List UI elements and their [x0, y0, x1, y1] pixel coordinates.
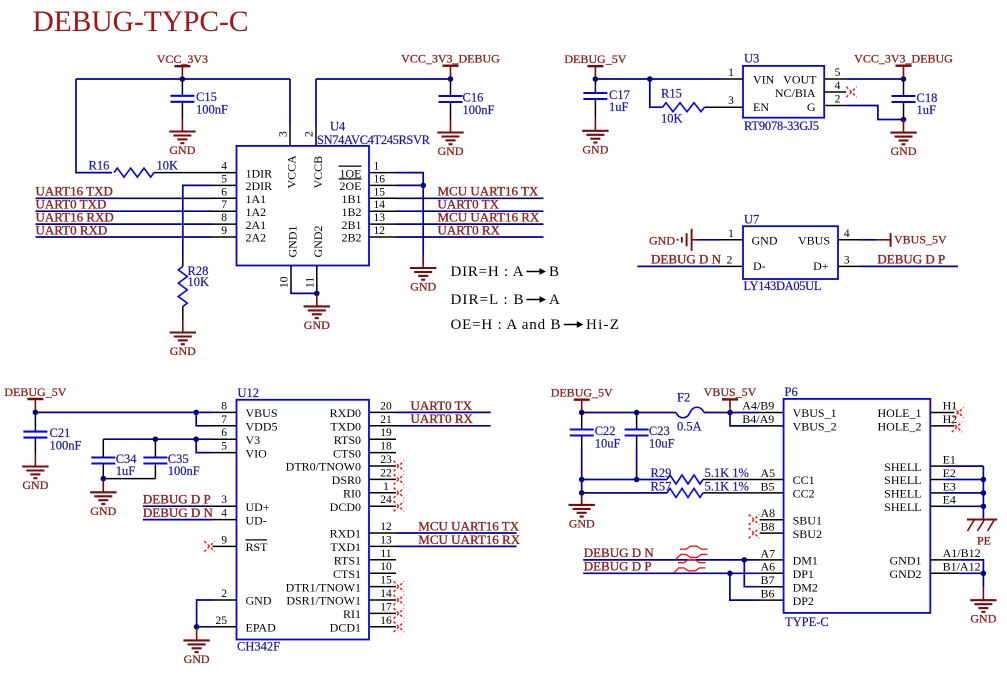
ground below C22 rail	[569, 492, 596, 531]
capacitor C16	[439, 79, 495, 120]
no-connect X pin 22	[394, 474, 404, 484]
svg-text:CC1: CC1	[793, 473, 815, 487]
svg-text:RXD0: RXD0	[330, 406, 361, 420]
svg-text:A5: A5	[761, 466, 776, 480]
svg-text:VCC_3V3_DEBUG: VCC_3V3_DEBUG	[401, 52, 500, 66]
wire CC2 to gnd	[581, 493, 583, 505]
resistor R28	[178, 255, 209, 320]
ground below C18	[890, 120, 917, 159]
junction GND2	[981, 571, 987, 577]
svg-text:GND: GND	[582, 142, 608, 156]
wire E4 to PE bus	[944, 505, 983, 507]
svg-text:B7: B7	[761, 573, 775, 587]
wire DEBUG_5V rail (U12)	[35, 411, 212, 413]
U12 pin 19	[369, 427, 396, 439]
svg-text:EPAD: EPAD	[246, 621, 277, 635]
junction C23/CC1	[634, 477, 640, 483]
junction rail/C21	[33, 410, 39, 416]
svg-text:DEBUG D P: DEBUG D P	[877, 251, 945, 266]
no-connect X pin 16	[394, 622, 404, 632]
svg-text:1B2: 1B2	[341, 205, 361, 219]
svg-text:4: 4	[835, 80, 841, 92]
power port DEBUG_5V (U3)	[564, 52, 626, 79]
wire R15 drop	[650, 79, 663, 107]
U12 pin 1	[369, 481, 396, 493]
svg-text:TXD1: TXD1	[330, 540, 361, 554]
wire CC1 row	[582, 479, 667, 481]
title DEBUG-TYPC-C	[33, 6, 249, 38]
svg-text:B4/A9: B4/A9	[742, 412, 774, 426]
wire DEBUG_5V to VIN	[595, 78, 721, 80]
U7 part number LY143DA05UL	[744, 279, 822, 293]
svg-text:5: 5	[221, 173, 227, 185]
svg-text:SHELL: SHELL	[884, 500, 921, 514]
svg-text:VOUT: VOUT	[783, 73, 817, 87]
svg-text:DIR=L : B: DIR=L : B	[451, 292, 524, 308]
svg-text:VBUS_2: VBUS_2	[793, 420, 837, 434]
U12 pin 8	[213, 400, 237, 412]
wire net UART0 RX	[396, 425, 491, 427]
net label UART0 TX	[411, 398, 473, 413]
svg-text:GND: GND	[246, 594, 272, 608]
P6 pin B5 CC2	[760, 479, 784, 493]
junction rail drop pin7	[193, 410, 199, 416]
U4 right pin names	[339, 166, 362, 245]
U12 pin 14	[369, 588, 396, 600]
wire pin1 to GND port	[697, 239, 721, 241]
svg-text:DP1: DP1	[793, 567, 814, 581]
ground below C15	[169, 119, 196, 158]
svg-text:U4: U4	[330, 120, 346, 134]
svg-text:2OE: 2OE	[340, 179, 362, 193]
op-amp U4 body	[237, 146, 370, 266]
svg-text:1: 1	[728, 67, 734, 79]
svg-text:DCD1: DCD1	[330, 621, 361, 635]
P6 pin E3 SHELL	[930, 479, 956, 493]
svg-text:7: 7	[221, 199, 227, 211]
svg-text:2B1: 2B1	[341, 218, 361, 232]
wire net MCU UART16 TX	[396, 197, 544, 199]
svg-text:U12: U12	[238, 386, 260, 400]
regulator U3 body	[743, 66, 824, 118]
note OE=H	[451, 317, 620, 333]
junction C18 gnd node	[901, 117, 907, 123]
U7 pin 4	[838, 228, 860, 240]
svg-text:GND1: GND1	[890, 554, 922, 568]
svg-text:0.5A: 0.5A	[677, 419, 702, 433]
svg-text:GND: GND	[22, 478, 48, 492]
wire DM1 to DM2	[744, 560, 759, 587]
svg-text:6: 6	[221, 186, 227, 198]
svg-text:100nF: 100nF	[463, 103, 495, 117]
wire drop to VIO	[196, 439, 212, 452]
svg-text:E3: E3	[943, 479, 956, 493]
capacitor C23	[625, 413, 675, 480]
junction C35 top	[153, 436, 159, 442]
P6 designator	[785, 385, 798, 399]
P6 pin B6 DP2	[760, 587, 784, 601]
U12 pin 11	[369, 548, 396, 560]
P6 pin E2 SHELL	[930, 466, 956, 480]
resistor R57	[651, 479, 749, 497]
U4 pin 8	[213, 212, 237, 224]
svg-text:B: B	[549, 264, 559, 280]
U12 pin 5	[213, 441, 237, 453]
net label DEBUG D N (U12)	[143, 505, 214, 520]
svg-text:SHELL: SHELL	[884, 487, 921, 501]
note DIR=H	[451, 264, 560, 280]
svg-text:A1/B12: A1/B12	[943, 546, 981, 560]
U7 designator	[744, 213, 759, 227]
svg-text:DM2: DM2	[793, 580, 818, 594]
wire VCC_3V3_DEBUG rail	[316, 78, 451, 80]
no-connect X pin 15	[394, 581, 404, 591]
svg-text:EN: EN	[753, 100, 769, 114]
junction E4	[981, 504, 987, 510]
wire VCC_3V3 left drop to R16	[76, 79, 112, 173]
wire R57 to CC2	[703, 492, 760, 494]
wire E3 to PE bus	[944, 492, 983, 494]
svg-text:U3: U3	[744, 52, 759, 66]
junction DEBUG_5V/C17	[593, 76, 599, 82]
svg-text:DM1: DM1	[793, 554, 818, 568]
svg-text:VCC_3V3_DEBUG: VCC_3V3_DEBUG	[854, 52, 953, 66]
wire CC2 row	[582, 480, 667, 493]
chassis ground PE	[967, 519, 997, 548]
junction gnd rail CC2	[579, 490, 585, 496]
svg-text:D+: D+	[813, 259, 829, 273]
wire drop to VDD5	[196, 412, 212, 425]
ground below R28	[170, 320, 197, 359]
svg-text:2A2: 2A2	[246, 231, 267, 245]
svg-text:SBU1: SBU1	[793, 513, 822, 527]
U12 pin 21	[369, 414, 396, 426]
junction DM1/DM2	[742, 557, 748, 563]
svg-text:B8: B8	[761, 520, 775, 534]
U12 pin 13	[369, 534, 396, 546]
net label MCU UART16 TX	[438, 184, 539, 199]
svg-text:DSR1/TNOW1: DSR1/TNOW1	[286, 594, 361, 608]
power port DEBUG_5V (P6)	[551, 386, 613, 413]
junction VOUT node	[901, 76, 907, 82]
svg-text:3: 3	[844, 254, 850, 266]
wire net UART0 TX	[396, 210, 544, 212]
svg-text:2: 2	[221, 588, 227, 600]
junction P6 rail C23	[634, 410, 640, 416]
svg-text:RST: RST	[246, 540, 269, 554]
svg-text:DEBUG_5V: DEBUG_5V	[564, 52, 626, 66]
junction DP1/DP2	[727, 571, 733, 577]
svg-text:LY143DA05UL: LY143DA05UL	[744, 279, 822, 293]
P6 pin B1/A12 GND2	[930, 559, 980, 573]
svg-text:DEBUG D N: DEBUG D N	[651, 251, 722, 266]
svg-text:VCCB: VCCB	[311, 156, 325, 189]
svg-text:13: 13	[374, 212, 386, 224]
net label DEBUG D P (P6)	[584, 558, 652, 573]
svg-text:E4: E4	[943, 493, 956, 507]
U4 pin 5	[213, 173, 237, 185]
ground below P6	[970, 587, 997, 626]
U12 pin 3	[213, 494, 237, 506]
power port VCC_3V3_DEBUG (U3)	[854, 52, 953, 79]
svg-text:1: 1	[374, 161, 380, 173]
junction P6 rail C22	[579, 410, 585, 416]
svg-text:DTR0/TNOW0: DTR0/TNOW0	[286, 460, 361, 474]
power port VBUS_5V (bar style)	[876, 232, 947, 247]
svg-text:SHELL: SHELL	[884, 473, 921, 487]
wire net UART0 RXD	[36, 236, 213, 238]
mcu U12 body	[237, 400, 370, 640]
svg-text:1uF: 1uF	[917, 103, 937, 117]
svg-text:4: 4	[844, 228, 850, 240]
svg-text:R57: R57	[651, 479, 672, 493]
capacitor C17	[583, 79, 629, 118]
svg-text:15: 15	[374, 186, 386, 198]
svg-text:CTS0: CTS0	[333, 446, 361, 460]
svg-text:3: 3	[221, 494, 227, 506]
svg-text:DTR1/TNOW1: DTR1/TNOW1	[286, 580, 361, 594]
svg-text:16: 16	[374, 173, 386, 185]
svg-text:SN74AVC4T245RSVR: SN74AVC4T245RSVR	[317, 133, 431, 147]
wire net MCU UART16 RX	[396, 223, 544, 225]
wire R29 to CC1	[703, 479, 760, 481]
wire pin16 stub	[396, 184, 423, 186]
svg-text:B5: B5	[761, 479, 775, 493]
net label DEBUG D P (U12)	[143, 492, 211, 507]
svg-text:20: 20	[380, 400, 392, 412]
diff pair mark P	[674, 560, 706, 573]
U4 pin 14	[369, 199, 396, 211]
svg-text:4: 4	[221, 508, 227, 520]
U7 pin 3	[838, 254, 860, 266]
svg-text:16: 16	[380, 615, 392, 627]
svg-text:6: 6	[221, 427, 227, 439]
svg-text:DSR0: DSR0	[332, 473, 361, 487]
U7 pin 2	[721, 254, 743, 266]
no-connect X pin 17	[394, 608, 404, 618]
svg-text:10: 10	[279, 276, 291, 288]
svg-text:R15: R15	[661, 87, 682, 101]
note DIR=L	[451, 292, 561, 308]
connector P6 body	[784, 399, 931, 613]
svg-text:3: 3	[278, 131, 290, 137]
U12 pin 25	[213, 615, 237, 627]
wire GND1/GND2 to gnd	[959, 560, 983, 587]
P6 type label TYPE-C	[785, 615, 829, 629]
U3 pin 1	[721, 67, 743, 79]
U4 pin 11	[304, 266, 317, 289]
resistor R29	[651, 466, 749, 484]
junction C22/CC1	[579, 477, 585, 483]
svg-text:SBU2: SBU2	[793, 527, 822, 541]
svg-text:GND: GND	[891, 144, 917, 158]
no-connect X HOLE_1	[953, 407, 963, 417]
svg-text:UD-: UD-	[246, 513, 267, 527]
U4 pin 13	[369, 212, 396, 224]
U4 rotated VCCA	[285, 155, 299, 189]
U4 designator	[330, 120, 346, 134]
svg-text:VBUS: VBUS	[798, 233, 830, 247]
svg-text:14: 14	[374, 199, 386, 211]
svg-text:RTS0: RTS0	[334, 433, 361, 447]
svg-text:VBUS_5V: VBUS_5V	[894, 232, 947, 246]
U7 pin names	[752, 233, 831, 273]
ground below C16	[437, 120, 464, 159]
wire DEBUG_5V to fuse	[582, 412, 676, 414]
resistor R16	[89, 159, 179, 178]
svg-text:V3: V3	[246, 433, 261, 447]
svg-text:17: 17	[380, 601, 392, 613]
power port VBUS_5V (P6)	[704, 385, 757, 412]
svg-text:1A2: 1A2	[246, 205, 267, 219]
svg-text:8: 8	[221, 212, 227, 224]
net label DEBUG D N (U7)	[651, 251, 722, 266]
svg-text:25: 25	[216, 615, 228, 627]
wire GND/EPAD link	[197, 600, 213, 627]
capacitor C34	[91, 439, 137, 478]
svg-text:GND: GND	[184, 652, 210, 666]
svg-text:RI0: RI0	[343, 487, 361, 501]
junction E3	[981, 490, 987, 496]
P6 pin E1 SHELL	[930, 453, 956, 467]
svg-text:2DIR: 2DIR	[246, 179, 273, 193]
svg-text:2: 2	[304, 131, 316, 137]
svg-text:RT9078-33GJ5: RT9078-33GJ5	[744, 119, 819, 133]
P6 pin A4/B9	[742, 399, 783, 413]
svg-text:1: 1	[728, 228, 734, 240]
svg-text:R29: R29	[651, 466, 672, 480]
capacitor C18	[892, 79, 938, 120]
svg-text:HOLE_1: HOLE_1	[878, 406, 922, 420]
svg-text:VIO: VIO	[246, 446, 268, 460]
resistor R15	[661, 87, 705, 126]
no-connect X pin 1	[394, 488, 404, 498]
net label UART16 RXD	[36, 210, 114, 225]
svg-text:A: A	[549, 292, 560, 308]
U4 pin 4	[213, 161, 237, 173]
no-connect X SBU1	[749, 515, 759, 525]
svg-text:5.1K 1%: 5.1K 1%	[705, 479, 749, 493]
wire net DEBUG D N (U12)	[143, 519, 213, 521]
U4 part number SN74AVC4T245RSVR	[317, 133, 431, 147]
svg-text:G: G	[807, 100, 816, 114]
U4 rotated GND1	[286, 226, 300, 258]
svg-text:10K: 10K	[661, 112, 683, 126]
svg-text:1uF: 1uF	[609, 100, 629, 114]
svg-text:VCCA: VCCA	[285, 155, 299, 189]
svg-text:GND: GND	[752, 233, 778, 247]
capacitor C22	[570, 413, 621, 480]
svg-text:DEBUG-TYPC-C: DEBUG-TYPC-C	[33, 6, 249, 38]
wire net MCU UART16 RX (U12)	[396, 545, 517, 547]
U3 pin 3	[721, 95, 743, 107]
wire E2 to PE bus	[944, 479, 983, 481]
svg-text:14: 14	[380, 588, 392, 600]
U4 pin 3 VCCA	[278, 79, 291, 146]
net label UART16 TXD	[36, 184, 113, 199]
svg-text:UD+: UD+	[246, 500, 270, 514]
U12 pin 22	[369, 467, 396, 479]
U4 pin 2 VCCB	[304, 79, 317, 146]
svg-text:GND: GND	[169, 143, 195, 157]
svg-text:10uF: 10uF	[649, 437, 675, 451]
ground below C17	[582, 118, 609, 157]
svg-text:100nF: 100nF	[168, 464, 200, 478]
capacitor C15	[170, 79, 228, 119]
svg-text:13: 13	[380, 534, 392, 546]
svg-text:D-: D-	[753, 259, 766, 273]
svg-text:UART0 RX: UART0 RX	[438, 222, 501, 237]
svg-text:R16: R16	[89, 159, 110, 173]
U12 pin 20	[369, 400, 396, 412]
no-connect X pin 24	[394, 501, 404, 511]
diff pair mark N	[676, 546, 708, 559]
svg-text:HOLE_2: HOLE_2	[878, 420, 922, 434]
svg-text:DEBUG D P: DEBUG D P	[584, 558, 652, 573]
wire net DEBUG D P (U12)	[143, 505, 213, 507]
net label DEBUG D N (P6)	[584, 545, 655, 560]
wire net UART16 TXD	[36, 197, 213, 199]
svg-text:GND2: GND2	[311, 226, 325, 258]
P6 pin B7 DM2	[760, 573, 784, 587]
no-connect X HOLE_2	[952, 422, 962, 432]
P6 left pin names	[793, 406, 837, 608]
U12 pin 12	[369, 521, 396, 533]
svg-text:21: 21	[380, 414, 392, 426]
P6 pin H1 HOLE_1	[930, 399, 957, 413]
U3 part number RT9078-33GJ5	[744, 119, 819, 133]
svg-text:B1/A12: B1/A12	[943, 559, 981, 573]
svg-text:10K: 10K	[188, 275, 210, 289]
svg-text:VIN: VIN	[753, 73, 775, 87]
svg-text:1B1: 1B1	[341, 192, 361, 206]
svg-text:GND: GND	[304, 318, 330, 332]
net label UART0 TXD	[36, 197, 107, 212]
wire VOUT to VCC_3V3_DEBUG	[846, 78, 903, 80]
svg-text:2: 2	[727, 254, 733, 266]
svg-text:DEBUG_5V: DEBUG_5V	[551, 386, 613, 400]
svg-text:2: 2	[835, 94, 841, 106]
junction pin16	[420, 183, 426, 189]
U4 rotated VCCB	[311, 156, 325, 189]
ground below C21	[22, 454, 49, 493]
svg-text:5: 5	[221, 441, 227, 453]
P6 pin A8 SBU1	[760, 506, 784, 520]
svg-text:9: 9	[221, 225, 227, 237]
svg-text:GND: GND	[90, 504, 116, 518]
fuse F2	[676, 391, 704, 434]
no-connect X pin 23	[394, 461, 404, 471]
U3 pin 4 stub	[824, 80, 846, 92]
U12 pin 18	[369, 441, 396, 453]
svg-text:4: 4	[221, 161, 227, 173]
power port DEBUG_5V (U12)	[4, 385, 66, 412]
U3 pin 2	[824, 94, 846, 106]
svg-text:OE=H : A and B: OE=H : A and B	[451, 317, 561, 333]
U12 pin 16	[369, 615, 396, 627]
U4 pin 15	[369, 186, 396, 198]
svg-text:SHELL: SHELL	[884, 460, 921, 474]
wire net DEBUG D P (P6)	[583, 572, 759, 574]
svg-text:RTS1: RTS1	[334, 554, 361, 568]
svg-text:GND1: GND1	[286, 226, 300, 258]
svg-text:15: 15	[380, 575, 392, 587]
U12 pin 4	[213, 508, 237, 520]
svg-text:1A1: 1A1	[246, 192, 267, 206]
wire net DEBUG D P (U7)	[860, 265, 958, 267]
svg-text:5: 5	[835, 67, 841, 79]
wire fuse to VBUS	[704, 412, 760, 414]
